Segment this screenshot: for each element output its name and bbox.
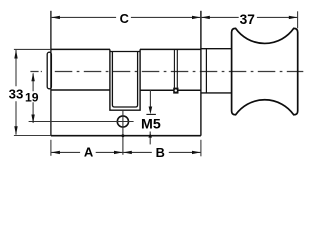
round part bottom edge right (140, 89, 201, 91)
dimension C line (51, 16, 201, 18)
svg-text:M5: M5 (141, 116, 161, 132)
cam recessed top edge (110, 51, 140, 53)
dimension A/B line (51, 151, 201, 153)
37 right arrow (289, 16, 298, 19)
B right arrow (192, 151, 201, 154)
body top edge left (51, 48, 110, 50)
M5 depth arrow (149, 90, 151, 110)
A right arrow (114, 151, 123, 154)
body end face + dimension extension at x=200.9 (200, 11, 202, 136)
33 bottom arrow (14, 126, 17, 135)
svg-text:B: B (156, 145, 165, 160)
M5 leader below (149, 132, 151, 145)
centerline (cylinder axis) (30, 71, 42, 73)
dimension 19 line (32, 73, 34, 123)
cam slot outer U (110, 49, 140, 110)
C right arrow (192, 16, 201, 19)
retaining pin block (173, 88, 178, 94)
M5 hole vertical centerline / A-B extension (122, 110, 124, 155)
collar joint line (205, 49, 207, 93)
dimension 33 extension bottom (14, 135, 51, 137)
cylinder face cap (47, 52, 51, 89)
M5 hole (117, 116, 128, 127)
dimension 33 line (15, 50, 17, 135)
19 bottom arrow (31, 115, 34, 124)
A left arrow (51, 151, 60, 154)
collar bottom edge (201, 92, 232, 94)
svg-text:A: A (84, 145, 94, 160)
body left vertical (cap joint + lower-left edge + C extension) (50, 11, 52, 136)
svg-text:33: 33 (9, 87, 24, 102)
body top edge right (140, 48, 201, 50)
joint groove lines on body (173, 49, 175, 87)
cam slot inner U (112, 52, 137, 108)
A left extension (50, 140, 52, 156)
37 left arrow (201, 16, 210, 19)
dimension 33 extension top (14, 48, 51, 50)
dimension 37 line (201, 16, 298, 18)
svg-text:37: 37 (240, 12, 256, 27)
thumbturn knob outline (232, 28, 298, 114)
B right extension (200, 140, 202, 157)
svg-text:C: C (120, 11, 129, 26)
19 top arrow (31, 73, 34, 82)
33 top arrow (14, 50, 17, 59)
M5 hole horizontal centerline / 19 extension (29, 121, 134, 123)
37 extension line right (297, 11, 299, 28)
round part bottom edge left (51, 89, 110, 91)
collar top edge (201, 48, 232, 50)
svg-text:19: 19 (25, 90, 39, 104)
lower profile body bottom edge (51, 135, 201, 137)
C left arrow (51, 16, 60, 19)
B left arrow (123, 151, 132, 154)
